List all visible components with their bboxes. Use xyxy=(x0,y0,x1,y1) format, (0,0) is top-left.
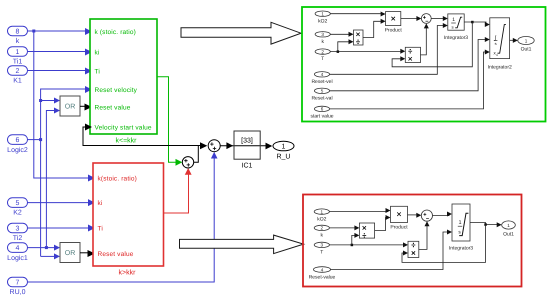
gd input 3 k xyxy=(315,32,330,45)
gd input 1 kO2 xyxy=(315,11,330,24)
svg-text:Out1: Out1 xyxy=(503,231,514,237)
svg-text:start value: start value xyxy=(310,114,333,120)
svg-text:3: 3 xyxy=(321,243,324,248)
rd divide block 1 xyxy=(359,223,374,238)
rd output port Out1 xyxy=(502,221,516,237)
rd Product block xyxy=(390,206,408,230)
svg-text:1: 1 xyxy=(321,209,324,214)
svg-text:1: 1 xyxy=(458,220,461,226)
gd input 5 Reset-val xyxy=(311,88,332,101)
svg-text:OR: OR xyxy=(65,104,76,111)
gd wire start value to Integrator2 in3 xyxy=(330,50,490,109)
svg-text:2: 2 xyxy=(321,49,324,54)
svg-text:1: 1 xyxy=(282,144,286,151)
rd input 2 k xyxy=(314,225,329,239)
svg-text:R_U: R_U xyxy=(276,154,290,161)
gd wire divide2 out up to sum bottom (minus) xyxy=(421,23,429,55)
wire sum2 to IC1 to R_U xyxy=(220,142,272,149)
svg-text:1: 1 xyxy=(525,38,528,43)
svg-text:OR: OR xyxy=(65,250,76,257)
red detail border xyxy=(303,195,522,287)
gd wire Integrator3 out to Integrator2 in1 with feedback branch xyxy=(392,21,490,67)
svg-text:Logic2: Logic2 xyxy=(7,146,28,154)
svg-text:[33]: [33] xyxy=(241,137,253,145)
svg-text:1: 1 xyxy=(507,223,510,228)
gd wire Product out to sum xyxy=(401,16,422,21)
svg-text:Ti1: Ti1 xyxy=(13,58,23,66)
IC block IC1 [33] xyxy=(234,131,260,170)
svg-text:o: o xyxy=(496,53,498,57)
svg-text:4: 4 xyxy=(321,72,324,77)
OR gate block OR1 xyxy=(60,96,80,116)
sum junction sum1 xyxy=(182,157,193,168)
wire OR1 output to green Reset value port xyxy=(80,104,92,111)
rd wire T to divide1 divide input and divide2 top input xyxy=(329,233,408,248)
svg-text:Logic1: Logic1 xyxy=(7,254,28,262)
svg-text:Integrator2: Integrator2 xyxy=(488,65,512,71)
svg-text:k: k xyxy=(16,37,20,45)
subsystem block (red) k>kkr xyxy=(93,163,164,277)
rd wire Integrator3 out to Out1 with feedback branch xyxy=(402,222,502,262)
svg-text:Reset value: Reset value xyxy=(98,251,134,258)
svg-text:3: 3 xyxy=(16,226,20,233)
OR gate block OR2 xyxy=(60,243,80,263)
gd Integrator3 block xyxy=(444,14,468,41)
svg-text:ki: ki xyxy=(98,200,103,207)
gd wire Reset-val to Integrator2 in2 xyxy=(330,37,490,91)
svg-text:kO2: kO2 xyxy=(318,18,327,24)
gd Integrator2 block xyxy=(488,18,512,71)
green detail border xyxy=(302,7,546,122)
wire from 2 to green Ti port xyxy=(28,68,93,75)
rd sum circle xyxy=(421,210,432,221)
svg-text:Velocity start value: Velocity start value xyxy=(95,125,152,132)
svg-text:kO2: kO2 xyxy=(317,216,326,222)
wire from 7 (RU,0) up into sum2 bottom xyxy=(28,152,218,282)
svg-text:k<=kkr: k<=kkr xyxy=(115,136,137,144)
input port 5 (K2) xyxy=(8,198,28,217)
wire from 1 to green ki port xyxy=(28,49,93,56)
input port 2 (K1) xyxy=(8,66,28,85)
svg-text:Ti: Ti xyxy=(95,69,100,76)
rd wire divide2 out up to sum bottom (minus) xyxy=(419,221,430,249)
svg-text:Product: Product xyxy=(385,28,403,34)
sum junction sum2 xyxy=(208,140,220,152)
svg-text:5: 5 xyxy=(16,200,20,207)
gd wire Integrator2 out to Out1 xyxy=(510,38,518,43)
svg-text:Ti: Ti xyxy=(98,226,103,233)
svg-text:6: 6 xyxy=(321,107,324,112)
output port R_U xyxy=(273,141,294,160)
svg-text:Integrator3: Integrator3 xyxy=(444,35,468,41)
svg-text:8: 8 xyxy=(16,29,20,36)
input port 7 (RU,0) xyxy=(8,277,28,296)
svg-text:1: 1 xyxy=(452,17,455,23)
svg-text:k>kkr: k>kkr xyxy=(119,269,137,277)
red subsystem output wire up to sum1 bottom xyxy=(164,168,192,213)
gd wire kO2 to Product in1 xyxy=(330,12,385,17)
gd input 2 T xyxy=(315,49,330,62)
rd wire kO2 to Product in1 xyxy=(329,208,390,213)
svg-text:s: s xyxy=(452,25,454,30)
rd wire sum to Integrator3 xyxy=(433,212,453,217)
input port 3 (Ti2) xyxy=(8,223,28,242)
svg-text:Reset value: Reset value xyxy=(95,105,131,112)
wire from 3 (Ti2) to red Ti port xyxy=(28,225,96,232)
svg-text:s: s xyxy=(495,41,497,46)
svg-text:Reset-vel: Reset-vel xyxy=(311,79,332,85)
svg-text:Ti2: Ti2 xyxy=(13,234,23,242)
wire from 5 (K2) to red ki port xyxy=(28,199,96,206)
svg-text:4: 4 xyxy=(16,245,20,252)
rd wire Product out to sum xyxy=(408,213,422,218)
green subsystem output wire down to sum1 xyxy=(157,77,182,166)
svg-text:Out1: Out1 xyxy=(521,47,532,53)
svg-text:7: 7 xyxy=(16,280,20,287)
svg-text:1: 1 xyxy=(16,49,20,56)
svg-text:4: 4 xyxy=(321,267,324,272)
rd divide block 2 xyxy=(408,241,419,257)
svg-text:Product: Product xyxy=(390,225,408,231)
svg-text:Reset-val: Reset-val xyxy=(311,96,332,102)
input port 6 (Logic2) xyxy=(7,135,28,154)
svg-text:Reset velocity: Reset velocity xyxy=(95,87,138,94)
rd Integrator3 block xyxy=(449,204,473,252)
gd divide block 1 xyxy=(354,30,364,45)
gd sum circle xyxy=(421,14,431,24)
gd wire sum to Integrator3 xyxy=(431,16,448,21)
rd input 1 kO2 xyxy=(314,209,329,222)
gd divide block 2 xyxy=(405,47,420,62)
gd Product block xyxy=(385,12,403,34)
gd wire Reset-vel to Integrator3 in2 xyxy=(330,23,448,74)
rd wire Reset-value to Integrator3 in2 xyxy=(331,230,453,270)
input port 8 (k) xyxy=(8,26,28,45)
svg-text:k (stoic. ratio): k (stoic. ratio) xyxy=(95,29,136,36)
wire from 8 to green k port with branch to red k port xyxy=(28,28,96,182)
svg-text:RU,0: RU,0 xyxy=(10,289,26,296)
big block arrow to green detail xyxy=(181,22,301,44)
gd wire k to divide1 x input xyxy=(330,32,353,37)
svg-text:IC1: IC1 xyxy=(242,163,253,170)
svg-text:2: 2 xyxy=(16,68,20,75)
wire OR2 output to red Reset value port xyxy=(80,250,95,257)
svg-text:3: 3 xyxy=(321,32,324,37)
svg-text:6: 6 xyxy=(16,137,20,144)
gd wire T to divide1 divide input and divide2 top input xyxy=(330,39,405,53)
feedback line to Velocity start value and into sum2 xyxy=(83,124,207,150)
rd input 3 T xyxy=(314,242,329,256)
svg-text:1: 1 xyxy=(321,12,324,17)
big block arrow to red detail xyxy=(180,235,304,254)
svg-text:Integrator3: Integrator3 xyxy=(449,246,473,252)
svg-text:ki: ki xyxy=(95,50,100,57)
input port 1 (Ti1) xyxy=(8,47,28,66)
svg-text:k(stoic. ratio): k(stoic. ratio) xyxy=(98,176,137,183)
svg-text:K1: K1 xyxy=(13,78,22,85)
svg-text:T: T xyxy=(321,56,324,62)
rd input 4 Reset-value xyxy=(309,267,336,281)
gd output port Out1 xyxy=(518,37,534,53)
wire from 6 (Logic2) trunk: up to Reset velocity, branches to OR1 in1 and OR2 in2 xyxy=(28,86,93,259)
wire from 4 (Logic1) to OR2 in1, branch up to OR1 in2 xyxy=(28,108,61,251)
svg-text:2: 2 xyxy=(321,226,324,231)
svg-text:5: 5 xyxy=(321,89,324,94)
svg-text:Reset-value: Reset-value xyxy=(309,275,336,281)
rd wire k to divide1 x input xyxy=(329,225,359,230)
input port 4 (Logic1) xyxy=(7,243,28,262)
rd wire divide1 out to Product in2 xyxy=(375,215,391,231)
subsystem block (green) k<=kkr xyxy=(90,19,157,144)
gd wire divide1 out to Product in2 xyxy=(363,19,386,38)
svg-text:T: T xyxy=(320,250,323,256)
sum1 output wire up to feedback line junction xyxy=(194,146,199,163)
gd input 4 Reset-vel xyxy=(311,72,332,85)
svg-text:K2: K2 xyxy=(13,210,22,217)
gd input 6 start value xyxy=(310,106,333,119)
